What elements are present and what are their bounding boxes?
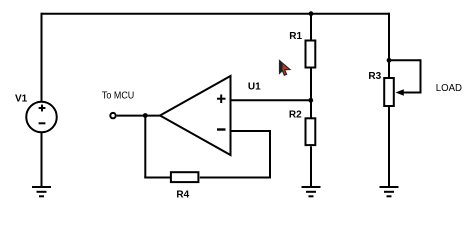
svg-text:LOAD: LOAD bbox=[436, 83, 462, 94]
wire pot wiper horizontal bbox=[402, 92, 422, 94]
op-amp - input symbol bbox=[217, 128, 226, 130]
resistor R4 bbox=[171, 172, 199, 182]
svg-text:R1: R1 bbox=[289, 31, 302, 42]
terminal (open circle, To MCU) bbox=[110, 113, 115, 118]
wire R2 to ground bbox=[310, 146, 312, 187]
wire pot bracket top bbox=[389, 59, 421, 61]
wire V1 to ground bbox=[41, 132, 43, 188]
wire R3 to ground bbox=[388, 107, 390, 188]
mouse cursor bbox=[280, 61, 290, 76]
wire rail to R1 bbox=[310, 14, 312, 40]
ground (R3) bbox=[380, 187, 399, 196]
wire terminal to op-amp output bbox=[117, 115, 161, 117]
wire feedback bottom right segment bbox=[200, 177, 271, 179]
op-amp + input symbol bbox=[217, 95, 226, 104]
svg-text:R3: R3 bbox=[368, 71, 381, 82]
resistor R3 (potentiometer body) bbox=[384, 78, 394, 106]
svg-text:To MCU: To MCU bbox=[102, 91, 134, 102]
resistor R1 bbox=[306, 41, 316, 68]
svg-text:R2: R2 bbox=[289, 110, 302, 121]
resistor R2 bbox=[306, 118, 316, 145]
node top rail / R1 junction bbox=[309, 11, 314, 16]
ground (V1) bbox=[32, 187, 51, 196]
wire op-amp + input to divider node bbox=[231, 99, 311, 101]
wire left vertical from rail to V1 bbox=[41, 13, 43, 103]
voltage source V1 bbox=[26, 102, 57, 133]
wire rail right end down to R3 bbox=[388, 13, 390, 78]
svg-text:R4: R4 bbox=[176, 189, 189, 200]
node R3 top junction bbox=[387, 58, 392, 63]
wire R1 to divider node bbox=[310, 69, 312, 101]
svg-text:U1: U1 bbox=[248, 81, 261, 92]
wire op-amp - input to feedback bbox=[231, 130, 271, 132]
wire pot bracket right vertical bbox=[420, 59, 422, 92]
wire divider node to R2 bbox=[310, 100, 312, 117]
node divider junction bbox=[308, 98, 313, 103]
op-amp U1 bbox=[160, 76, 231, 155]
wire feedback bottom left segment bbox=[144, 177, 170, 179]
node output junction bbox=[143, 113, 148, 118]
svg-text:V1: V1 bbox=[15, 93, 28, 104]
ground (R2) bbox=[302, 187, 321, 196]
wire top rail bbox=[42, 13, 390, 15]
wire feedback right vertical bbox=[269, 130, 271, 178]
wire feedback left vertical (output node down) bbox=[144, 116, 146, 179]
pot wiper arrowhead bbox=[396, 89, 404, 96]
